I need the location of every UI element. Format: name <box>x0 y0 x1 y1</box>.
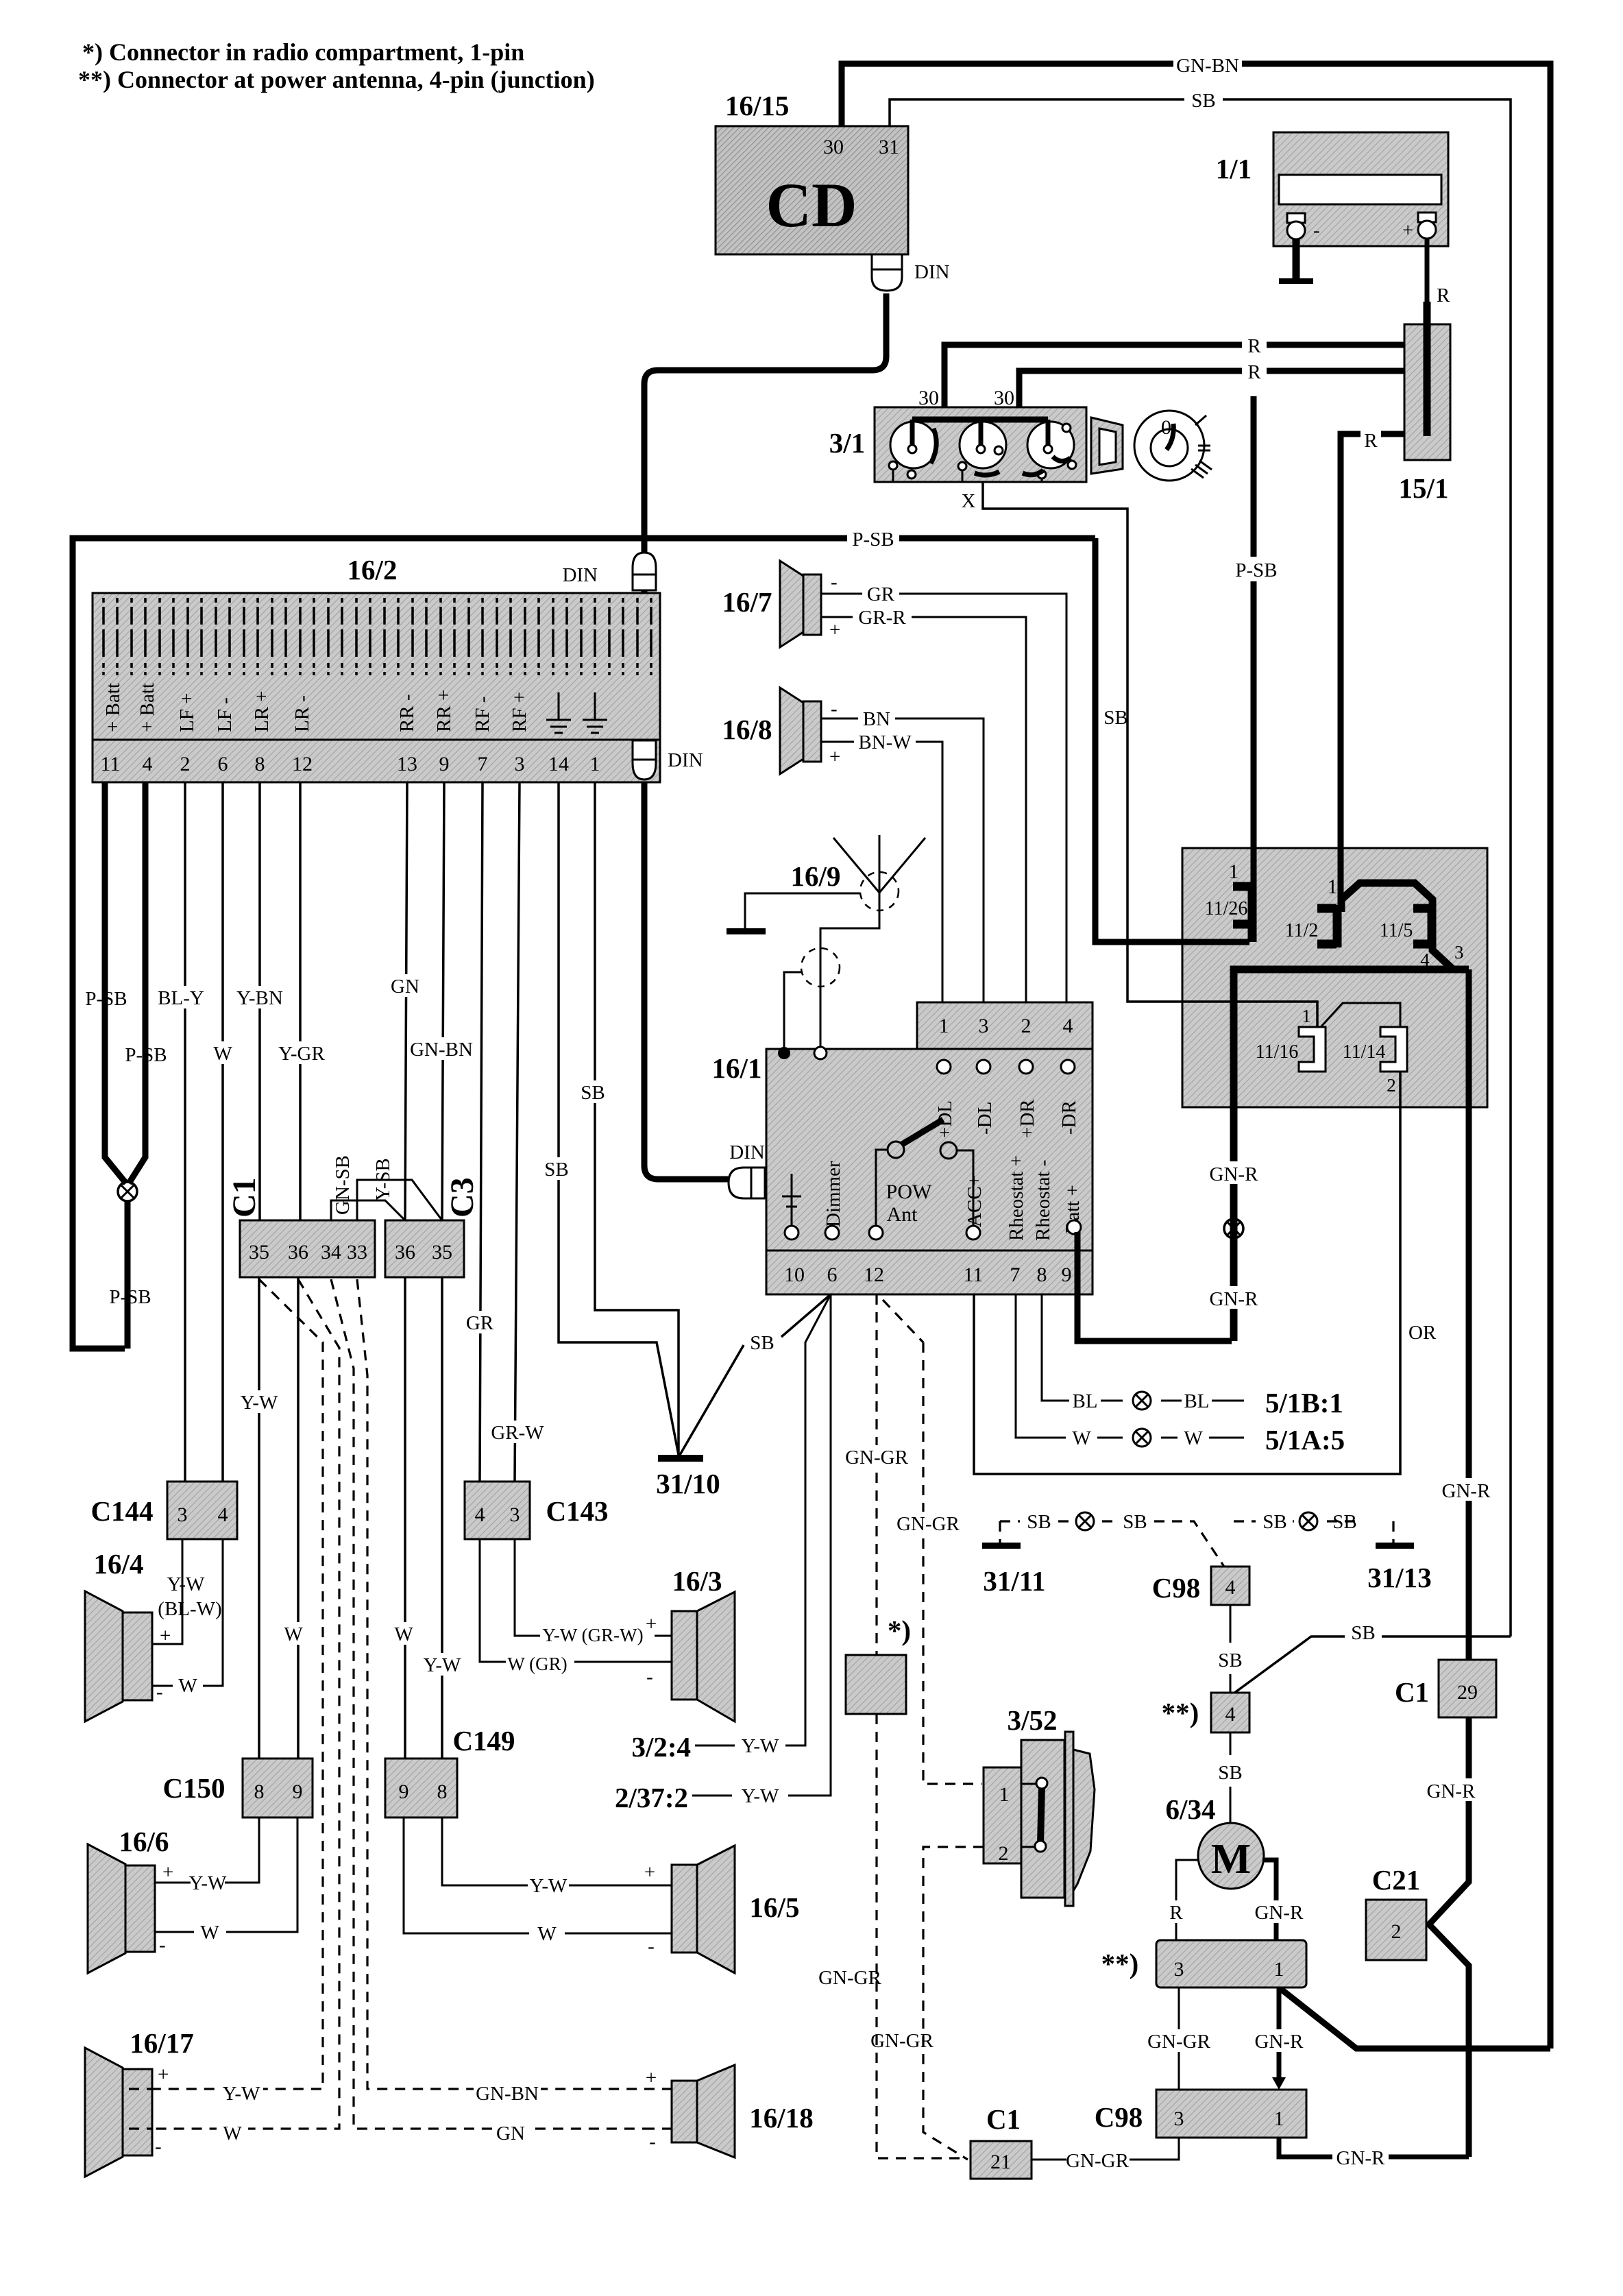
svg-text:Y-SB: Y-SB <box>372 1158 394 1201</box>
svg-text:11/2: 11/2 <box>1285 920 1319 941</box>
svg-text:GN-GR: GN-GR <box>870 2030 933 2052</box>
svg-text:RF -: RF - <box>472 697 493 732</box>
svg-text:C98: C98 <box>1095 2101 1143 2133</box>
svg-text:GN-R: GN-R <box>1337 2147 1386 2169</box>
svg-text:Dimmer: Dimmer <box>822 1161 844 1227</box>
svg-text:10: 10 <box>784 1264 805 1286</box>
svg-text:3/52: 3/52 <box>1008 1704 1058 1736</box>
svg-text:Y-W: Y-W <box>742 1785 779 1807</box>
svg-text:6: 6 <box>827 1264 838 1286</box>
svg-text:SB: SB <box>544 1159 568 1181</box>
svg-text:-: - <box>1313 219 1320 241</box>
svg-text:GN-SB: GN-SB <box>332 1155 354 1215</box>
svg-text:R: R <box>1247 361 1261 383</box>
svg-text:Y-BN: Y-BN <box>236 987 283 1009</box>
svg-text:Y-W: Y-W <box>189 1872 227 1894</box>
svg-text:*): *) <box>888 1615 911 1646</box>
svg-text:1: 1 <box>999 1783 1010 1806</box>
svg-text:+: + <box>1402 219 1413 241</box>
svg-text:GR: GR <box>867 583 895 605</box>
svg-text:-: - <box>648 1935 655 1957</box>
svg-text:GR: GR <box>466 1312 494 1334</box>
svg-text:R: R <box>1169 1902 1183 1924</box>
svg-text:W: W <box>394 1623 413 1645</box>
svg-text:+: + <box>829 746 840 768</box>
svg-text:X: X <box>962 490 976 512</box>
svg-text:SB: SB <box>1262 1511 1286 1533</box>
svg-text:W: W <box>284 1623 303 1645</box>
svg-text:3: 3 <box>178 1503 188 1526</box>
svg-text:9: 9 <box>293 1780 303 1803</box>
svg-text:2: 2 <box>1391 1920 1402 1943</box>
svg-text:SB: SB <box>1218 1762 1242 1784</box>
svg-text:29: 29 <box>1457 1681 1478 1704</box>
svg-text:C3: C3 <box>444 1177 480 1218</box>
svg-text:3: 3 <box>1454 942 1464 963</box>
svg-text:-: - <box>831 571 838 593</box>
svg-text:Y-W: Y-W <box>223 2083 260 2105</box>
svg-text:11/14: 11/14 <box>1343 1041 1386 1063</box>
svg-text:36: 36 <box>288 1241 308 1264</box>
svg-text:3: 3 <box>1174 2107 1184 2130</box>
svg-text:-: - <box>155 2136 162 2158</box>
svg-text:GN-GR: GN-GR <box>845 1447 908 1469</box>
svg-text:16/1: 16/1 <box>712 1052 762 1084</box>
svg-text:W: W <box>537 1923 557 1945</box>
svg-text:2/37:2: 2/37:2 <box>615 1782 688 1813</box>
svg-text:1: 1 <box>1328 875 1338 898</box>
svg-text:35: 35 <box>432 1241 452 1264</box>
svg-text:SB: SB <box>1332 1511 1356 1533</box>
svg-text:31/13: 31/13 <box>1367 1562 1431 1593</box>
svg-text:3/1: 3/1 <box>829 427 865 459</box>
svg-text:GN: GN <box>391 976 419 998</box>
svg-text:11/16: 11/16 <box>1256 1041 1299 1063</box>
svg-text:Y-W: Y-W <box>424 1654 461 1676</box>
svg-text:**) Connector at power antenna: **) Connector at power antenna, 4-pin (j… <box>78 66 595 93</box>
svg-text:12: 12 <box>292 753 313 775</box>
svg-text:DIN: DIN <box>729 1141 765 1163</box>
svg-text:+: + <box>162 1861 173 1883</box>
svg-text:3/2:4: 3/2:4 <box>631 1731 691 1763</box>
svg-text:GN-R: GN-R <box>1255 2031 1304 2053</box>
svg-text:30: 30 <box>994 387 1014 409</box>
svg-text:GN-GR: GN-GR <box>1147 2031 1210 2053</box>
svg-text:GN-GR: GN-GR <box>896 1513 960 1535</box>
svg-text:-: - <box>649 2131 656 2153</box>
svg-text:W: W <box>223 2123 242 2144</box>
svg-text:W: W <box>178 1675 197 1697</box>
svg-text:P-SB: P-SB <box>85 988 127 1010</box>
svg-text:31/11: 31/11 <box>983 1565 1045 1597</box>
svg-text:4: 4 <box>218 1503 228 1526</box>
svg-text:SB: SB <box>1191 90 1215 112</box>
svg-text:**): **) <box>1101 1948 1139 1979</box>
svg-text:POW: POW <box>886 1181 932 1203</box>
svg-text:-DR: -DR <box>1058 1100 1080 1135</box>
svg-text:P-SB: P-SB <box>109 1286 151 1308</box>
svg-text:BN-W: BN-W <box>858 732 912 753</box>
svg-text:16/6: 16/6 <box>119 1826 169 1857</box>
svg-text:3: 3 <box>979 1015 989 1037</box>
svg-text:GN-BN: GN-BN <box>1176 55 1239 77</box>
svg-text:8: 8 <box>1037 1264 1047 1286</box>
svg-text:GR-W: GR-W <box>491 1422 544 1444</box>
svg-text:+ Batt: + Batt <box>102 683 124 732</box>
svg-text:SB: SB <box>1123 1511 1147 1533</box>
svg-text:5/1B:1: 5/1B:1 <box>1265 1387 1343 1418</box>
svg-text:4: 4 <box>1225 1703 1236 1726</box>
svg-text:R: R <box>1364 430 1378 452</box>
svg-text:W: W <box>213 1043 232 1065</box>
svg-text:16/15: 16/15 <box>725 90 789 121</box>
svg-text:-: - <box>831 698 838 720</box>
svg-text:-: - <box>159 1934 166 1956</box>
svg-text:3: 3 <box>515 753 525 775</box>
svg-text:1: 1 <box>1229 860 1239 883</box>
svg-text:1: 1 <box>1274 1958 1284 1981</box>
svg-text:+: + <box>646 2067 657 2089</box>
svg-text:GN-GR: GN-GR <box>818 1967 881 1989</box>
svg-text:P-SB: P-SB <box>1235 559 1277 581</box>
svg-text:34: 34 <box>321 1241 341 1264</box>
svg-text:C144: C144 <box>90 1495 153 1527</box>
svg-text:SB: SB <box>750 1332 774 1354</box>
svg-text:4: 4 <box>1063 1015 1073 1037</box>
svg-text:P-SB: P-SB <box>852 529 894 551</box>
svg-text:M: M <box>1211 1836 1252 1883</box>
svg-text:BN: BN <box>863 708 890 730</box>
svg-text:33: 33 <box>347 1241 367 1264</box>
svg-text:11/5: 11/5 <box>1380 920 1413 941</box>
svg-text:8: 8 <box>254 1780 265 1803</box>
svg-text:GN-GR: GN-GR <box>1066 2150 1129 2172</box>
svg-text:+: + <box>829 619 840 641</box>
svg-text:16/7: 16/7 <box>722 586 772 618</box>
svg-text:16/5: 16/5 <box>750 1892 800 1923</box>
svg-text:11: 11 <box>964 1264 984 1286</box>
svg-text:16/4: 16/4 <box>94 1548 144 1580</box>
svg-text:31: 31 <box>879 136 899 158</box>
svg-text:1: 1 <box>1274 2107 1284 2130</box>
svg-text:BL-Y: BL-Y <box>158 987 204 1009</box>
svg-text:SB: SB <box>1103 707 1127 729</box>
svg-text:GN-R: GN-R <box>1210 1288 1259 1310</box>
svg-text:5/1A:5: 5/1A:5 <box>1265 1424 1345 1455</box>
svg-text:W (GR): W (GR) <box>507 1654 567 1674</box>
svg-text:+: + <box>646 1613 657 1635</box>
svg-text:Ant: Ant <box>887 1203 918 1226</box>
svg-text:LR +: LR + <box>251 690 273 732</box>
svg-text:P-SB: P-SB <box>125 1044 167 1066</box>
svg-text:Y-W: Y-W <box>742 1735 779 1757</box>
svg-text:Y-W: Y-W <box>530 1875 568 1897</box>
svg-text:1/1: 1/1 <box>1216 153 1252 184</box>
svg-text:16/3: 16/3 <box>672 1565 722 1597</box>
svg-text:9: 9 <box>1062 1264 1072 1286</box>
svg-text:36: 36 <box>395 1241 415 1264</box>
svg-text:1: 1 <box>939 1015 949 1037</box>
svg-text:C150: C150 <box>162 1772 225 1804</box>
svg-text:GN-BN: GN-BN <box>410 1039 473 1061</box>
svg-text:11/26: 11/26 <box>1205 898 1248 919</box>
svg-text:*) Connector in radio compartm: *) Connector in radio compartment, 1-pin <box>82 38 524 66</box>
svg-text:16/17: 16/17 <box>130 2027 193 2059</box>
svg-text:9: 9 <box>399 1780 409 1803</box>
svg-text:8: 8 <box>437 1780 448 1803</box>
svg-text:16/2: 16/2 <box>347 554 398 585</box>
svg-text:GN-R: GN-R <box>1442 1480 1491 1502</box>
svg-text:(BL-W): (BL-W) <box>158 1598 221 1620</box>
svg-text:2: 2 <box>999 1842 1009 1865</box>
svg-text:C143: C143 <box>546 1495 608 1527</box>
svg-text:Rheostat +: Rheostat + <box>1005 1155 1027 1241</box>
svg-text:BL: BL <box>1072 1390 1097 1412</box>
svg-text:31/10: 31/10 <box>656 1468 720 1499</box>
svg-text:R: R <box>1437 285 1450 306</box>
svg-text:GN-R: GN-R <box>1427 1780 1476 1802</box>
svg-text:+DL: +DL <box>934 1100 956 1138</box>
svg-text:1: 1 <box>1302 1006 1311 1026</box>
svg-text:GN-R: GN-R <box>1210 1163 1259 1185</box>
svg-text:30: 30 <box>823 136 844 158</box>
svg-text:SB: SB <box>1027 1511 1051 1533</box>
svg-text:16/9: 16/9 <box>791 860 841 892</box>
svg-text:RR -: RR - <box>396 694 418 732</box>
svg-text:2: 2 <box>180 753 191 775</box>
svg-text:-: - <box>646 1666 653 1688</box>
svg-text:C98: C98 <box>1152 1572 1201 1604</box>
svg-text:CD: CD <box>766 170 857 240</box>
svg-text:4: 4 <box>143 753 153 775</box>
svg-text:30: 30 <box>918 387 939 409</box>
svg-text:**): **) <box>1162 1697 1199 1728</box>
svg-text:W: W <box>1184 1427 1203 1449</box>
svg-text:2: 2 <box>1021 1015 1032 1037</box>
svg-text:OR: OR <box>1408 1322 1437 1344</box>
svg-text:-: - <box>156 1681 163 1703</box>
svg-text:3: 3 <box>510 1503 520 1526</box>
svg-text:4: 4 <box>475 1503 485 1526</box>
svg-text:0: 0 <box>1161 416 1171 439</box>
svg-text:C1: C1 <box>226 1177 263 1218</box>
svg-text:BL: BL <box>1184 1390 1209 1412</box>
svg-text:4: 4 <box>1225 1576 1236 1599</box>
svg-text:SB: SB <box>1351 1622 1375 1644</box>
svg-text:DIN: DIN <box>668 749 703 771</box>
svg-text:Rheostat -: Rheostat - <box>1032 1160 1054 1241</box>
svg-text:GR-R: GR-R <box>858 607 906 629</box>
svg-text:7: 7 <box>1010 1264 1021 1286</box>
svg-text:-DL: -DL <box>974 1102 996 1135</box>
svg-text:GN-R: GN-R <box>1255 1902 1304 1924</box>
svg-text:1: 1 <box>590 753 600 775</box>
svg-text:Y-W: Y-W <box>241 1392 278 1414</box>
svg-text:13: 13 <box>397 753 417 775</box>
svg-text:SB: SB <box>581 1082 605 1104</box>
svg-text:+DR: +DR <box>1016 1099 1038 1138</box>
svg-text:11: 11 <box>101 753 121 775</box>
svg-text:C21: C21 <box>1372 1864 1421 1896</box>
svg-text:SB: SB <box>1218 1650 1242 1671</box>
svg-text:14: 14 <box>548 753 569 775</box>
svg-text:15/1: 15/1 <box>1399 472 1449 504</box>
svg-text:C1: C1 <box>986 2103 1021 2135</box>
svg-text:R: R <box>1247 335 1261 357</box>
svg-text:21: 21 <box>990 2151 1011 2173</box>
svg-text:8: 8 <box>255 753 265 775</box>
svg-text:C149: C149 <box>452 1725 515 1756</box>
svg-text:DIN: DIN <box>562 564 598 586</box>
svg-text:16/18: 16/18 <box>749 2102 813 2134</box>
svg-text:LR -: LR - <box>291 695 313 732</box>
svg-text:6: 6 <box>218 753 228 775</box>
svg-text:12: 12 <box>864 1264 884 1286</box>
svg-text:ACC+: ACC+ <box>964 1175 986 1227</box>
svg-text:LF +: LF + <box>176 693 198 732</box>
svg-text:3: 3 <box>1174 1958 1184 1981</box>
svg-text:W: W <box>1072 1427 1091 1449</box>
svg-text:GN: GN <box>496 2123 525 2144</box>
svg-text:LF -: LF - <box>214 697 236 732</box>
svg-text:2: 2 <box>1387 1075 1396 1096</box>
svg-text:9: 9 <box>439 753 450 775</box>
svg-text:Y-GR: Y-GR <box>278 1043 325 1065</box>
svg-text:GN-BN: GN-BN <box>476 2083 539 2105</box>
svg-text:16/8: 16/8 <box>722 714 772 745</box>
svg-text:Y-W: Y-W <box>167 1573 205 1595</box>
svg-text:6/34: 6/34 <box>1166 1793 1216 1825</box>
svg-text:+ Batt: + Batt <box>136 683 158 732</box>
svg-text:7: 7 <box>478 753 488 775</box>
svg-text:35: 35 <box>249 1241 269 1264</box>
svg-text:W: W <box>200 1922 219 1944</box>
svg-text:+: + <box>158 2064 169 2086</box>
svg-text:RF +: RF + <box>509 692 530 732</box>
svg-text:RR +: RR + <box>433 690 455 732</box>
svg-text:C1: C1 <box>1395 1676 1429 1708</box>
svg-text:Y-W (GR-W): Y-W (GR-W) <box>542 1625 643 1645</box>
svg-text:+: + <box>644 1861 655 1883</box>
svg-text:DIN: DIN <box>914 261 950 283</box>
